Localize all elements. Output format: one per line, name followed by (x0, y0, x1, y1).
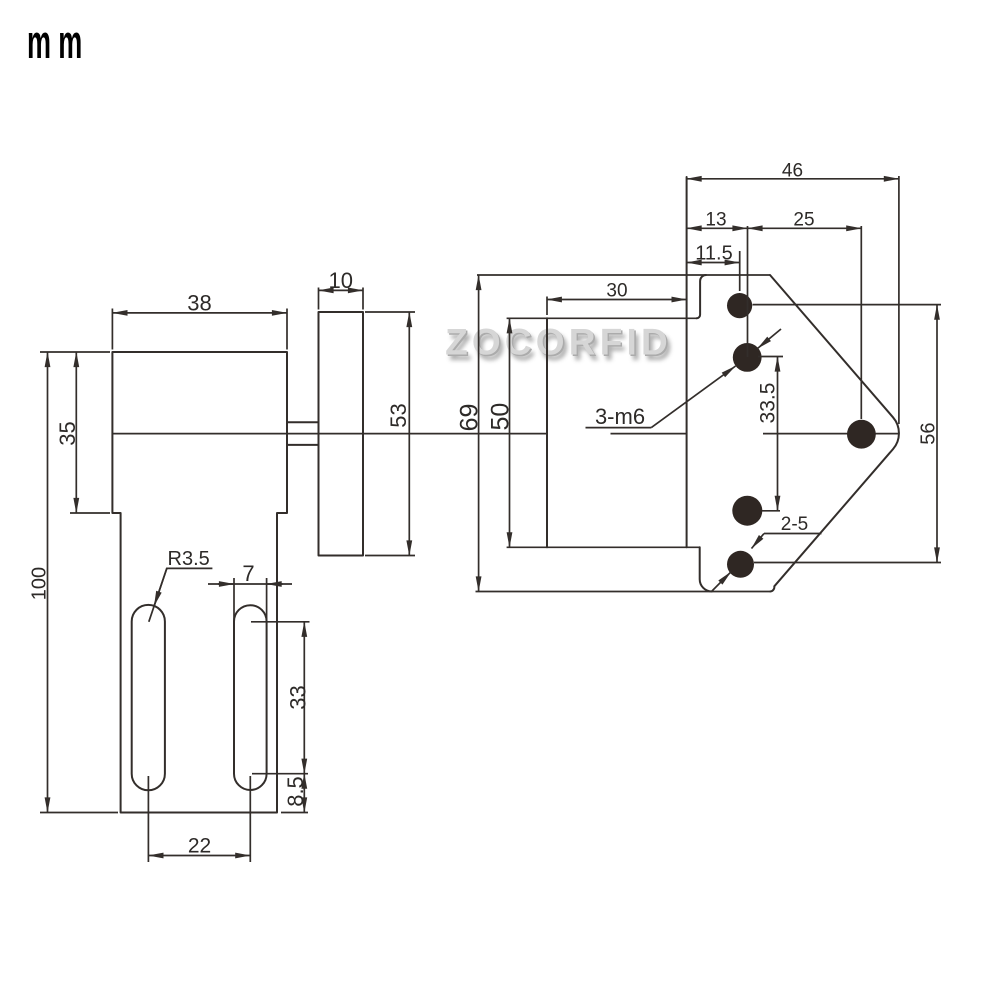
svg-text:3-m6: 3-m6 (595, 404, 645, 429)
svg-text:53: 53 (386, 403, 411, 427)
svg-text:25: 25 (793, 210, 814, 231)
svg-text:13: 13 (705, 210, 726, 231)
svg-text:mm: mm (27, 16, 89, 69)
svg-text:10: 10 (329, 268, 353, 293)
svg-text:11.5: 11.5 (695, 243, 732, 265)
svg-text:38: 38 (187, 291, 211, 316)
svg-text:8.5: 8.5 (283, 776, 308, 807)
svg-text:30: 30 (606, 281, 627, 302)
svg-text:50: 50 (487, 403, 515, 431)
svg-text:R3.5: R3.5 (168, 548, 210, 570)
svg-text:7: 7 (242, 561, 254, 586)
svg-text:35: 35 (55, 421, 80, 445)
svg-text:100: 100 (29, 567, 51, 600)
svg-text:2-5: 2-5 (781, 514, 808, 535)
svg-text:22: 22 (188, 835, 211, 858)
svg-text:56: 56 (918, 422, 940, 444)
svg-text:33.5: 33.5 (757, 383, 780, 424)
svg-text:69: 69 (456, 404, 484, 432)
svg-text:33: 33 (286, 685, 311, 709)
svg-text:46: 46 (782, 161, 803, 182)
